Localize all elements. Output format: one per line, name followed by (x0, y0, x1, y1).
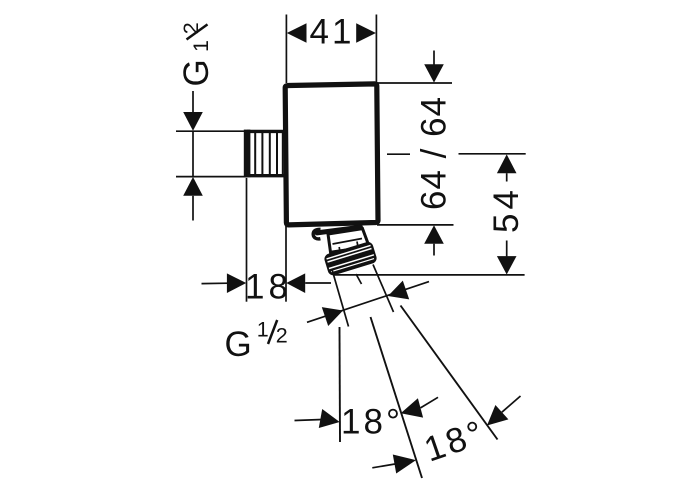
angle 18 second: right leader arrow (487, 405, 508, 426)
nozzle neck tick left (338, 247, 341, 252)
dim 54: middle extension dash left (387, 153, 410, 155)
angle 18 second: right leader tail (502, 396, 521, 412)
dim G1/2 left: upper tail (192, 91, 194, 113)
nozzle neck tick right (356, 242, 359, 247)
nut knurl stripe 3 (329, 255, 374, 269)
dim 64/64: bottom tail (433, 244, 435, 256)
nozzle axis tick (356, 274, 362, 284)
svg-text:54: 54 (487, 186, 526, 233)
svg-text:2: 2 (179, 22, 203, 34)
threaded wall connector bottom edge (247, 174, 285, 177)
angle 18 first: right leader tail (421, 397, 439, 408)
svg-text:18°: 18° (341, 403, 403, 442)
nozzle hose nut (323, 241, 378, 277)
label G1/2 left: fraction slash (187, 24, 208, 39)
thread line 5 (282, 133, 284, 174)
svg-text:1: 1 (189, 40, 213, 52)
dim 54: middle extension line right (459, 153, 526, 155)
dim G1/2 left: bottom extension line (176, 176, 247, 178)
dim 64/64: top tail (433, 51, 435, 66)
svg-text:64 / 64: 64 / 64 (415, 96, 454, 210)
label G1/2 outlet: fraction slash (268, 320, 277, 344)
dim 41: left arrow (287, 23, 307, 43)
hose 36deg line (401, 306, 498, 440)
angle 18 second: left leader arrow (393, 455, 416, 474)
svg-text:41: 41 (310, 13, 355, 52)
nozzle collar left hook (313, 229, 320, 239)
thread line 4 (276, 133, 278, 174)
nozzle collar band (317, 227, 361, 233)
dim G1/2 left: up arrow (183, 177, 203, 196)
dim 54: up arrow (497, 154, 517, 173)
dim 18: left arrow (227, 273, 246, 293)
angle 18 first: left leader tail (295, 420, 323, 421)
dim 64/64: top extension line (377, 82, 452, 84)
dim G1/2 left: middle segment (192, 131, 194, 176)
dim G1/2 left: top extension line (176, 130, 247, 132)
dim G1/2 outlet: upper-right arrow (388, 281, 409, 300)
connector left end cap (244, 130, 251, 178)
threaded wall connector G1/2 body top edge (247, 130, 285, 133)
thread line 1 (254, 133, 256, 174)
dim 64/64: top arrow (424, 64, 444, 82)
dim 54: down arrow (497, 256, 517, 274)
dim 54: bottom extension line (334, 274, 525, 276)
dim 18: left extension line (246, 178, 248, 302)
thread line 2 (261, 133, 263, 174)
angle 18 first: right leader arrow (401, 398, 423, 417)
angle 18 first: left leader arrow (319, 409, 340, 428)
nut knurl stripe 2 (328, 249, 372, 262)
dim 41: left extension line (285, 15, 287, 84)
outlet nozzle assembly (313, 227, 378, 276)
angle 18 second: left leader tail (372, 464, 395, 468)
nozzle neck (328, 229, 369, 253)
wall plate body (285, 84, 378, 225)
dim 64/64: bottom arrow (424, 225, 444, 243)
dim 18: right tail (305, 282, 331, 284)
dim 54: upper tail (506, 173, 508, 181)
svg-text:2: 2 (276, 323, 288, 347)
dim G1/2 left: lower tail (192, 196, 194, 221)
nozzle right side extension line (373, 265, 394, 313)
svg-text:G: G (225, 325, 252, 364)
svg-text:1: 1 (257, 318, 269, 342)
thread line 3 (269, 133, 271, 174)
nozzle left side extension line (332, 270, 349, 327)
dim G1/2 left: down arrow (183, 112, 203, 131)
svg-text:G: G (177, 59, 216, 86)
dim G1/2 outlet: lower-left arrow (322, 307, 343, 326)
dim G1/2 outlet: tilted dimension line (307, 282, 429, 323)
nut knurl stripe 4 (331, 259, 374, 272)
nut knurl stripe 1 (327, 245, 371, 258)
dim 54: lower tail (506, 241, 508, 257)
dim 41: right arrow (356, 23, 376, 43)
hose 18deg line (371, 317, 423, 478)
svg-text:18: 18 (245, 268, 292, 307)
dim 18: right extension line (285, 226, 287, 302)
dim 41: right extension line (375, 15, 377, 84)
dim 64/64: bottom extension line (377, 224, 454, 226)
dim 18: right arrow (286, 273, 305, 293)
nozzle neck seam (333, 239, 363, 245)
hose straight reference line (vertical) (339, 327, 342, 442)
dim 18: left tail (202, 282, 229, 284)
